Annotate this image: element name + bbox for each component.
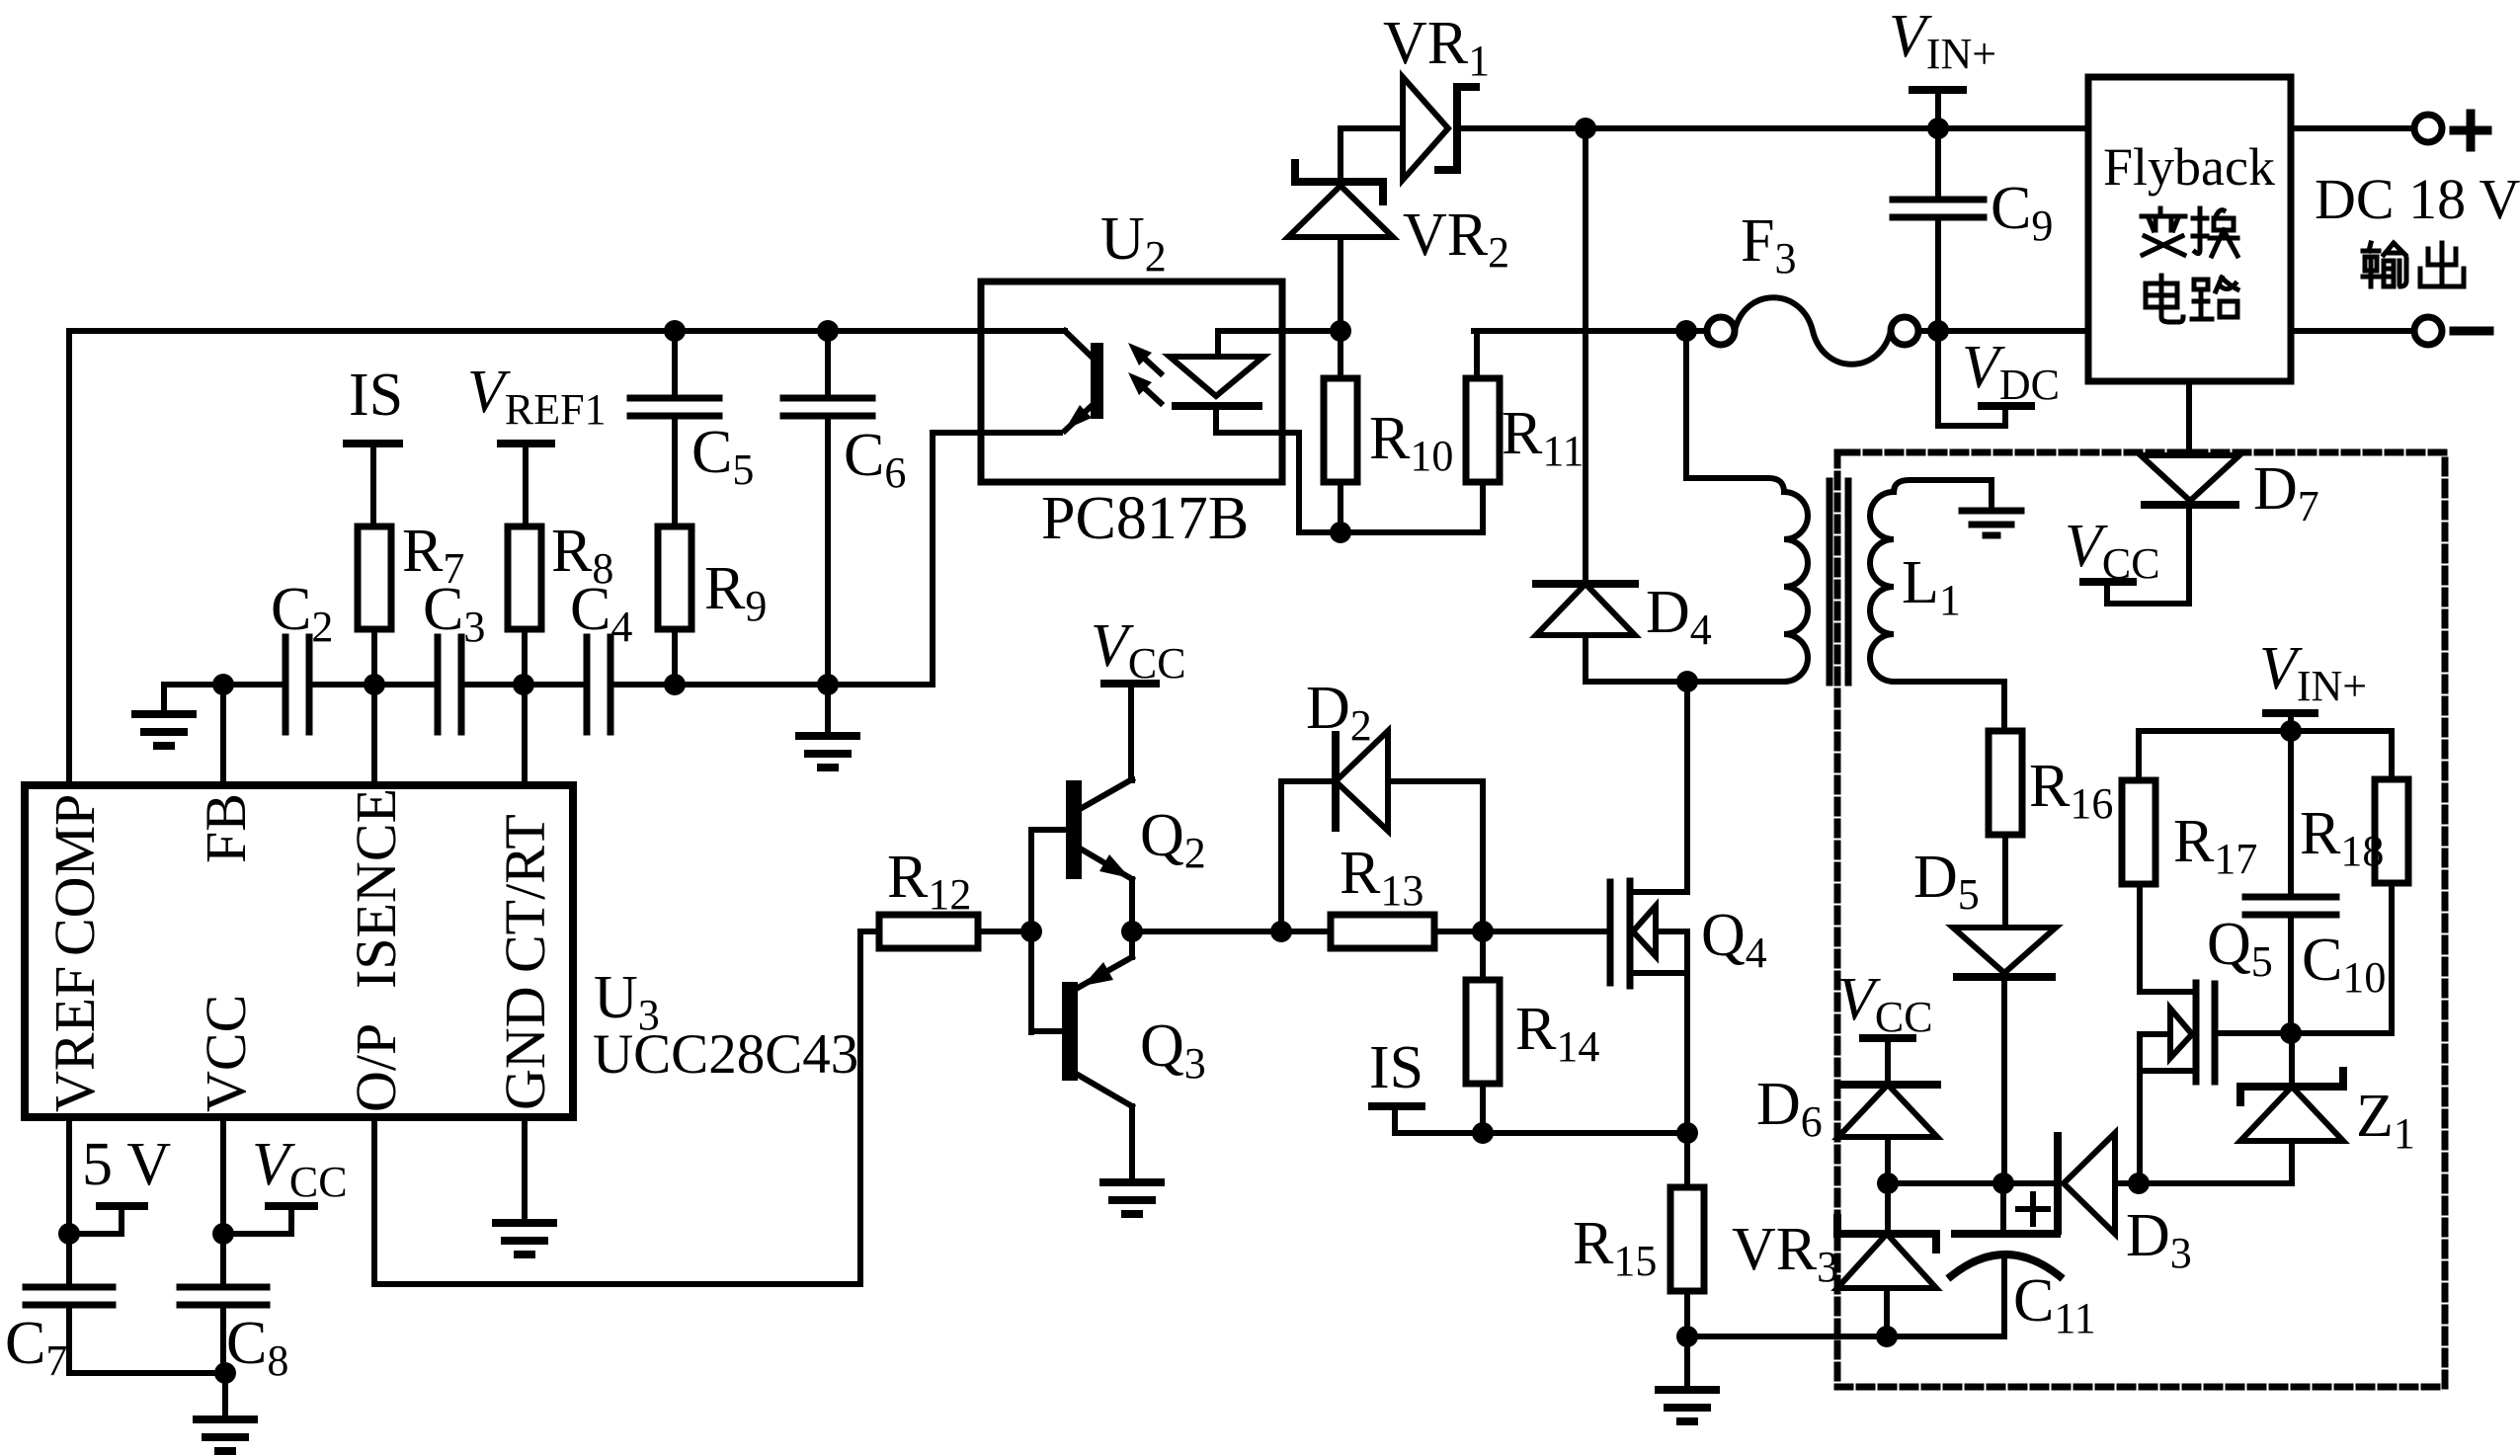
svg-text:R12: R12 <box>887 844 971 919</box>
zener VR1 <box>1341 125 1403 131</box>
wire IS line to Q4 source <box>1483 1130 1687 1136</box>
svg-text:R13: R13 <box>1340 840 1423 915</box>
wire top-left bus from COMP pin up and right to U2 <box>69 331 981 785</box>
diode D4 <box>1536 580 1635 588</box>
wire ISENCE pin <box>371 685 377 785</box>
transformer secondary winding L1 <box>1870 492 1894 682</box>
capacitor C9 <box>1935 128 1941 196</box>
wire GND pin to ground <box>522 1117 528 1223</box>
diode D6 <box>1838 1081 1937 1089</box>
node R9 bottom junction <box>664 674 686 695</box>
svg-text:R8: R8 <box>551 518 613 593</box>
zener Z1 <box>2289 1143 2295 1183</box>
wire bottom rail to C11 <box>1687 1334 2004 1339</box>
capacitor C3 <box>435 637 442 732</box>
svg-text:IS: IS <box>1369 1034 1423 1101</box>
node C7 C8 ground junction <box>214 1362 236 1384</box>
transformer primary winding <box>1784 492 1808 682</box>
svg-text:D4: D4 <box>1646 579 1712 654</box>
svg-text:C2: C2 <box>271 576 333 651</box>
U2 light arrows <box>1136 351 1161 373</box>
resistor R18 <box>2389 731 2395 779</box>
svg-text:VCC: VCC <box>252 1131 348 1206</box>
capacitor C4 <box>584 637 591 732</box>
resistor R13 <box>1281 929 1331 934</box>
svg-text:DC 18 V: DC 18 V <box>2315 167 2520 231</box>
wire VREF pin with 5V tap <box>66 1117 72 1287</box>
capacitor C7 <box>26 1284 113 1291</box>
dashed isolation border <box>1837 452 2445 1387</box>
capacitor C5 <box>672 331 678 396</box>
wire R10 R11 bottom link <box>1299 529 1479 535</box>
node R10 bottom junction <box>1330 522 1351 543</box>
output terminal + <box>2291 125 2414 131</box>
svg-text:R11: R11 <box>1502 400 1585 475</box>
transistor Q4 (NMOS) <box>1483 929 1607 934</box>
label 电路 inside flyback box <box>2146 276 2183 322</box>
svg-text:O/P: O/P <box>344 1023 408 1112</box>
wire secondary bottom to R16 <box>1894 682 2004 731</box>
svg-text:Q5: Q5 <box>2207 911 2273 986</box>
wire U2 emitter return down to bus <box>933 433 981 685</box>
svg-text:R15: R15 <box>1573 1210 1657 1285</box>
IC U3 UCC28C43 box <box>25 785 573 1117</box>
node Q2 Q3 base junction <box>1020 921 1042 942</box>
ground under R15 <box>1684 1336 1690 1390</box>
resistor R10 <box>1338 331 1343 378</box>
resistor R9 <box>658 526 691 629</box>
node C5 top junction <box>664 320 686 342</box>
ground at U3 GND <box>496 1219 553 1227</box>
U2 phototransistor <box>981 328 1065 334</box>
node C11 top junction <box>1992 1173 2014 1194</box>
node D4 top junction <box>1575 118 1596 139</box>
svg-text:CT/RT: CT/RT <box>493 814 557 973</box>
svg-text:C11: C11 <box>2013 1267 2096 1342</box>
ground under Q3 <box>1103 1178 1161 1186</box>
resistor R14 <box>1480 931 1486 980</box>
resistor R11 <box>1474 331 1477 378</box>
svg-text:D2: D2 <box>1306 675 1372 750</box>
resistor R15 <box>1684 1133 1690 1187</box>
svg-text:D3: D3 <box>2126 1202 2192 1277</box>
svg-text:Q3: Q3 <box>1140 1012 1206 1088</box>
node VR2 R10 junction <box>1330 320 1351 342</box>
node transformer primary bottom <box>1676 671 1698 692</box>
wire top rail <box>1585 125 2088 131</box>
svg-text:GND: GND <box>493 986 557 1110</box>
svg-text:VIN+: VIN+ <box>2259 635 2367 710</box>
resistor R16 <box>1989 731 2022 835</box>
node D6 bottom junction <box>1877 1173 1899 1194</box>
ground at left end of bus <box>161 685 167 714</box>
svg-text:VCC: VCC <box>2065 513 2160 588</box>
node Q5 gate junction <box>2280 1022 2302 1044</box>
svg-text:VR3: VR3 <box>1732 1216 1838 1291</box>
wire O/P output run <box>374 931 860 1284</box>
svg-text:COMP: COMP <box>42 794 107 956</box>
svg-text:Q2: Q2 <box>1140 802 1206 877</box>
transformer core <box>1827 481 1833 683</box>
resistor R12 <box>860 929 879 934</box>
svg-text:VR2: VR2 <box>1403 202 1509 277</box>
wire VR1 node down to D4 <box>1583 128 1588 580</box>
node D3 anode junction <box>2128 1173 2150 1194</box>
zener VR2 <box>1338 128 1343 179</box>
wire fuse to flyback <box>1918 328 2088 334</box>
svg-text:L1: L1 <box>1902 549 1961 624</box>
wire bus to fuse <box>1474 328 1707 334</box>
transistor Q5 (NMOS mirrored) <box>2137 884 2143 992</box>
node FB junction <box>212 674 234 695</box>
node fuse left junction <box>1675 320 1697 342</box>
svg-text:VIN+: VIN+ <box>1889 3 1996 78</box>
svg-text:F3: F3 <box>1741 207 1796 283</box>
svg-text:D6: D6 <box>1756 1071 1823 1146</box>
wire CT/RT pin <box>522 685 528 785</box>
svg-text:IS: IS <box>349 362 403 429</box>
wire primary top lead <box>1686 331 1784 492</box>
svg-text:C9: C9 <box>1991 175 2053 250</box>
node R15 bottom junction <box>1676 1326 1698 1347</box>
capacitor C11 electrolytic <box>2000 1183 2006 1231</box>
svg-text:Flyback: Flyback <box>2103 137 2275 197</box>
wire D6 to C11 node <box>1888 1180 2054 1186</box>
svg-text:Q4: Q4 <box>1701 902 1767 977</box>
U2 LED <box>1218 328 1282 334</box>
diode D3 <box>2054 1136 2062 1231</box>
node CT/RT junction <box>513 674 534 695</box>
node C9 bottom junction <box>1927 320 1949 342</box>
label 输出 output <box>2363 243 2406 286</box>
capacitor C10 <box>2288 731 2294 894</box>
capacitor C8 <box>180 1284 267 1291</box>
wire bottom bus with C2 C3 C4 <box>164 682 285 688</box>
svg-text:C10: C10 <box>2302 927 2386 1002</box>
svg-text:5 V: 5 V <box>82 1131 171 1198</box>
node VIN+ junction <box>1927 118 1949 139</box>
transistor Q3 (PNP) <box>1031 1028 1062 1034</box>
svg-text:R14: R14 <box>1515 996 1599 1071</box>
svg-text:R9: R9 <box>704 555 767 630</box>
label 变换 inside flyback box <box>2142 208 2185 255</box>
svg-text:ISENCE: ISENCE <box>344 788 408 989</box>
output terminal - <box>2291 328 2414 334</box>
svg-text:C5: C5 <box>691 419 754 494</box>
svg-text:VCC: VCC <box>194 995 258 1112</box>
zener VR3 <box>1885 1183 1891 1231</box>
svg-text:FB: FB <box>194 793 258 863</box>
svg-text:VCC: VCC <box>1091 612 1186 688</box>
svg-text:VREF1: VREF1 <box>467 359 607 434</box>
wire VCC pin with VCC tap <box>220 1117 226 1287</box>
wire base rail <box>1028 830 1034 1032</box>
svg-text:C6: C6 <box>844 422 906 497</box>
svg-text:VDC: VDC <box>1962 334 2060 409</box>
diode D2 <box>1281 781 1329 931</box>
svg-text:VCC: VCC <box>1837 966 1933 1041</box>
capacitor C2 <box>283 637 289 732</box>
ground below C7 C8 <box>222 1373 228 1419</box>
node output junction <box>1121 921 1143 942</box>
svg-text:R17: R17 <box>2173 808 2257 883</box>
svg-text:VR1: VR1 <box>1383 10 1490 85</box>
diode D5 <box>1953 928 2056 973</box>
node R13 right junction <box>1472 921 1494 942</box>
wire U2 cathode to R10 bottom <box>1282 433 1299 532</box>
block Flyback converter box <box>2088 77 2291 381</box>
svg-text:Z1: Z1 <box>2356 1083 2415 1158</box>
node Q4 source junction <box>1676 1122 1698 1144</box>
svg-text:R16: R16 <box>2029 753 2113 828</box>
svg-text:D7: D7 <box>2253 455 2319 530</box>
node R14 bottom junction <box>1472 1122 1494 1144</box>
wire FB pin <box>220 685 226 785</box>
diode D7 <box>2186 381 2192 455</box>
node ISENCE junction <box>364 674 385 695</box>
power tap VCC at D7 <box>2107 585 2189 604</box>
svg-text:R7: R7 <box>402 518 464 593</box>
wire R17 R18 top rail <box>2139 728 2392 734</box>
ground under C6 <box>825 685 831 736</box>
svg-text:D5: D5 <box>1913 844 1980 919</box>
capacitor C6 <box>825 331 831 396</box>
transistor Q2 (NPN) <box>1031 827 1066 833</box>
ground at secondary top <box>1962 508 2021 515</box>
svg-text:R10: R10 <box>1369 405 1453 480</box>
resistor R17 <box>2136 731 2142 780</box>
svg-text:UCC28C43: UCC28C43 <box>593 1023 858 1086</box>
node VIN+ right junction <box>2280 720 2302 742</box>
svg-text:PC817B: PC817B <box>1041 485 1249 552</box>
optocoupler U2 PC817B box <box>981 282 1282 482</box>
node R13 left junction <box>1270 921 1292 942</box>
svg-text:VREF: VREF <box>42 966 107 1112</box>
wire output to D2/R13 <box>1132 929 1281 934</box>
node C6 bottom junction <box>817 674 839 695</box>
fuse F3 <box>1707 317 1735 345</box>
wire U2 anode pin <box>1282 328 1341 334</box>
node C6 top junction <box>817 320 839 342</box>
svg-text:C7: C7 <box>5 1310 67 1385</box>
svg-text:U2: U2 <box>1100 205 1167 281</box>
node VR3 bottom junction <box>1876 1326 1898 1347</box>
